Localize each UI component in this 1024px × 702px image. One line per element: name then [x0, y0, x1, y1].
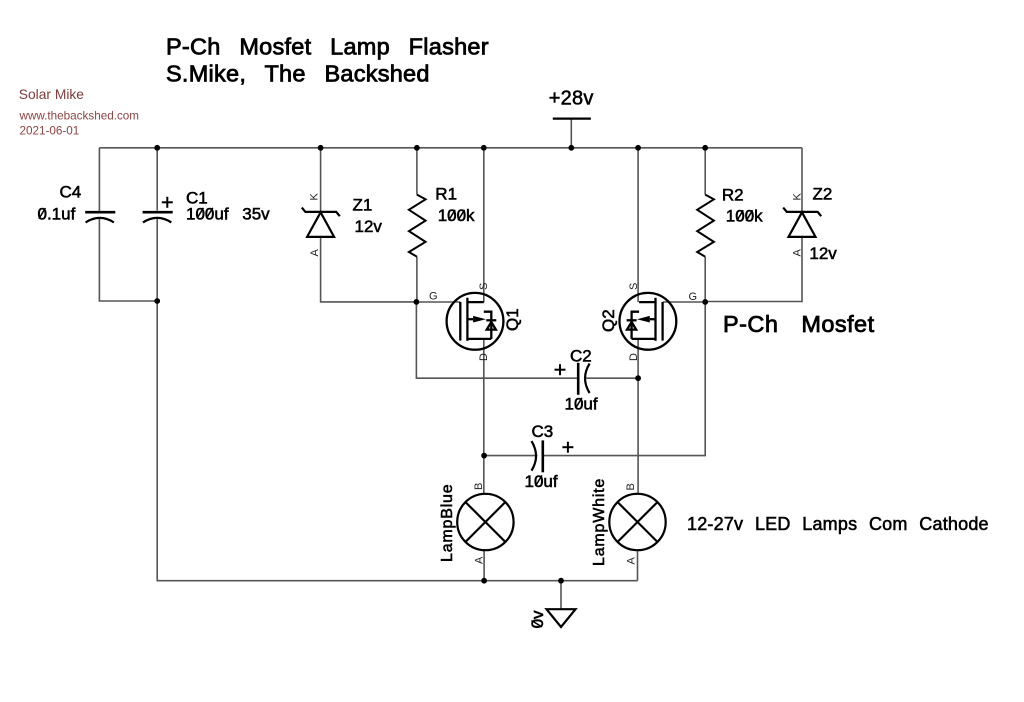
- svg-text:S: S: [628, 283, 640, 290]
- lamp LampWhite: [609, 494, 665, 550]
- svg-text:100uf 35v: 100uf 35v: [186, 204, 270, 223]
- wire C3 left: [484, 455, 537, 457]
- svg-text:B: B: [625, 483, 637, 490]
- svg-text:10uf: 10uf: [525, 472, 558, 491]
- svg-text:Q2: Q2: [599, 309, 618, 332]
- svg-text:P-Ch Mosfet: P-Ch Mosfet: [723, 311, 875, 337]
- svg-text:A: A: [309, 249, 321, 257]
- svg-text:A: A: [792, 249, 804, 257]
- svg-text:K: K: [309, 193, 321, 201]
- wire Q2 source: [637, 148, 639, 302]
- junction C2 right at Q2 drain: [635, 375, 641, 381]
- wire C1 branch: [156, 148, 158, 211]
- svg-text:G: G: [429, 291, 438, 303]
- svg-text:+28v: +28v: [549, 87, 594, 109]
- C3 plus: [562, 442, 573, 453]
- svg-text:K: K: [792, 193, 804, 201]
- svg-text:100k: 100k: [438, 206, 475, 225]
- wire gate junction down to C2: [416, 302, 578, 378]
- svg-text:D: D: [478, 353, 490, 361]
- zener Z1: [302, 208, 340, 237]
- svg-text:P-Ch Mosfet Lamp Flasher: P-Ch Mosfet Lamp Flasher: [166, 33, 489, 59]
- wire R2 top: [704, 148, 706, 195]
- junction R1 top on +28v rail: [414, 145, 420, 151]
- junction Z1 top on +28v rail: [318, 145, 324, 151]
- junction C4/C1 bottom node: [154, 298, 160, 304]
- wire Z1 top: [320, 148, 322, 211]
- svg-text:12v: 12v: [809, 244, 837, 263]
- net 0v (rotated): [528, 610, 547, 628]
- wire Z2 top from rail corner: [801, 148, 803, 211]
- node Q2 gate junction: [702, 299, 708, 305]
- svg-text:R2: R2: [722, 185, 744, 204]
- svg-text:www.thebackshed.com: www.thebackshed.com: [19, 110, 140, 123]
- lamp LampBlue: [457, 494, 513, 550]
- junction +28v feed on rail: [568, 145, 574, 151]
- svg-text:100k: 100k: [726, 206, 763, 225]
- junction Q1 source on +28v rail: [481, 145, 487, 151]
- wire Q2 drain to LampWhite: [637, 339, 639, 494]
- C2 plus: [555, 364, 566, 375]
- zener Z2: [783, 208, 821, 237]
- wire left drop to bottom rail: [157, 301, 637, 581]
- wire C2 right to Q2 drain: [586, 377, 638, 379]
- wire R2 bottom: [704, 257, 706, 302]
- svg-text:LampBlue: LampBlue: [439, 484, 456, 562]
- resistor R1: [409, 195, 426, 257]
- svg-text:C2: C2: [570, 347, 592, 366]
- wire Q1 drain to LampBlue: [483, 339, 485, 494]
- svg-text:D: D: [628, 353, 640, 361]
- svg-text:12-27v LED Lamps Com Cathode: 12-27v LED Lamps Com Cathode: [687, 514, 989, 534]
- svg-text:A: A: [474, 556, 486, 564]
- svg-text:12v: 12v: [355, 217, 383, 236]
- C1 plus: [162, 197, 173, 208]
- capacitor C3: [532, 440, 543, 472]
- junction ground tap on 0v rail: [558, 578, 564, 584]
- svg-text:C4: C4: [60, 183, 82, 202]
- svg-text:C3: C3: [532, 422, 554, 441]
- wire Z2 anode to gate junction: [705, 237, 802, 302]
- wire R1 top: [416, 148, 418, 195]
- wire top +28v rail: [99, 147, 802, 149]
- wire Q1 gate: [416, 301, 460, 303]
- wire LampWhite bottom: [637, 550, 639, 580]
- mosfet Q2 (mirrored): [620, 293, 677, 350]
- wire R1 bottom: [416, 257, 418, 302]
- svg-text:Z1: Z1: [353, 195, 373, 214]
- svg-text:S.Mike, The Backshed: S.Mike, The Backshed: [166, 61, 430, 87]
- wire +28v lead: [570, 119, 572, 148]
- svg-text:Q1: Q1: [503, 308, 522, 331]
- wire Z1 anode to gate junction: [321, 237, 417, 302]
- junction R2 top on +28v rail: [702, 145, 708, 151]
- svg-text:10uf: 10uf: [565, 394, 598, 413]
- wire C3 right up to Q2 gate junction: [543, 302, 705, 456]
- wire Q1 source: [483, 148, 485, 302]
- mosfet Q1: [447, 293, 504, 350]
- junction C3 left at Q1 drain: [481, 453, 487, 459]
- node Q1 gate junction: [414, 299, 420, 305]
- svg-text:G: G: [689, 291, 698, 303]
- svg-text:2021-06-01: 2021-06-01: [20, 125, 80, 138]
- ground symbol: [547, 609, 576, 627]
- wire Q2 gate: [663, 301, 705, 303]
- svg-text:A: A: [626, 557, 638, 565]
- wire C4 branch: [98, 148, 100, 212]
- junction LampBlue anode on 0v rail: [481, 578, 487, 584]
- junction Q2 source on +28v rail: [635, 145, 641, 151]
- svg-text:S: S: [478, 283, 490, 290]
- svg-text:B: B: [473, 483, 485, 490]
- zero slashes: [39, 208, 753, 486]
- svg-text:Solar Mike: Solar Mike: [19, 87, 84, 102]
- wire LampBlue bottom: [483, 550, 485, 580]
- svg-text:LampWhite: LampWhite: [591, 478, 608, 566]
- svg-text:0v: 0v: [528, 610, 547, 628]
- capacitor C1: [143, 212, 173, 222]
- wire ground lead: [560, 581, 562, 610]
- resistor R2: [697, 195, 714, 257]
- svg-text:0.1uf: 0.1uf: [38, 205, 76, 224]
- capacitor C4: [85, 212, 115, 222]
- power +28v bar: [553, 117, 591, 119]
- svg-text:Z2: Z2: [813, 185, 833, 204]
- capacitor C2: [578, 363, 589, 395]
- svg-text:R1: R1: [435, 184, 457, 203]
- junction C1 top on +28v rail: [154, 145, 160, 151]
